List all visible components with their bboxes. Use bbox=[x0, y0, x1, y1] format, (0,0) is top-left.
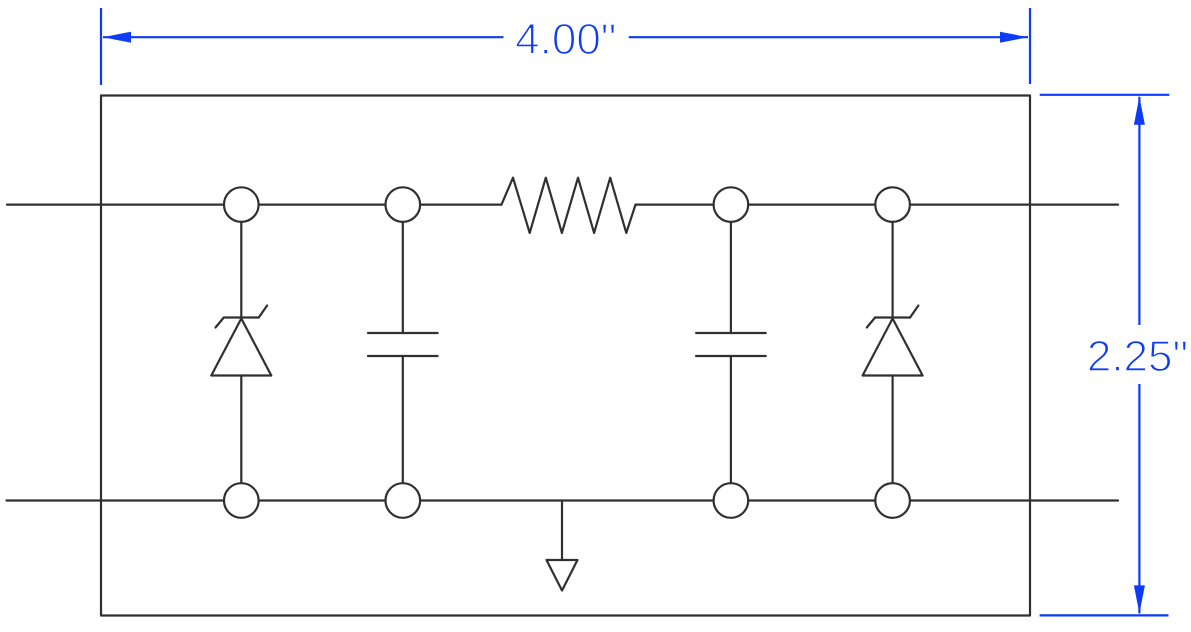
dimension line width left part with arrow bbox=[103, 32, 504, 43]
dimension text 4.00" bbox=[515, 15, 616, 64]
dimension extension line top (height) bbox=[1040, 94, 1170, 96]
node B (top rail, branch C1) bbox=[386, 187, 421, 222]
dimension extension line right (width) bbox=[1029, 8, 1031, 84]
wire branch C1 upper bbox=[402, 205, 404, 333]
ground bbox=[547, 501, 578, 591]
wire branch C2 lower bbox=[730, 356, 732, 501]
svg-text:2.25": 2.25" bbox=[1087, 332, 1188, 381]
resistor R1 bbox=[502, 178, 636, 233]
node F (bottom rail, branch C1) bbox=[386, 483, 421, 518]
wire top rail left segment bbox=[7, 204, 502, 206]
capacitor C1 bbox=[368, 333, 438, 356]
node D (top rail, branch D2) bbox=[875, 187, 910, 222]
wire bottom rail bbox=[7, 499, 1119, 501]
wire branch D2 lower bbox=[891, 376, 893, 501]
wire branch C2 upper bbox=[730, 205, 732, 333]
wire top rail right segment bbox=[636, 204, 1119, 206]
dimension extension line left (width) bbox=[100, 8, 102, 85]
wire branch D1 upper bbox=[240, 205, 242, 318]
capacitor C2 bbox=[696, 333, 766, 356]
svg-text:4.00": 4.00" bbox=[515, 15, 616, 64]
dimension line width right part with arrow bbox=[629, 32, 1028, 43]
zener diode D2 bbox=[863, 306, 923, 376]
wire branch D2 upper bbox=[891, 205, 893, 318]
enclosure outline (4.00 x 2.25 in box) bbox=[101, 96, 1030, 616]
node A (top rail, branch D1) bbox=[224, 187, 259, 222]
node H (bottom rail, branch D2) bbox=[875, 483, 910, 518]
wire branch D1 lower bbox=[240, 376, 242, 501]
node G (bottom rail, branch C2) bbox=[714, 483, 749, 518]
dimension extension line bottom (height) bbox=[1040, 614, 1169, 616]
dimension text 2.25" bbox=[1087, 332, 1188, 381]
zener diode D1 bbox=[211, 306, 271, 376]
node C (top rail, branch C2) bbox=[714, 187, 749, 222]
wire branch C1 lower bbox=[402, 356, 404, 501]
node E (bottom rail, branch D1) bbox=[224, 483, 259, 518]
dimension line height upper part with arrow bbox=[1134, 97, 1145, 325]
dimension line height lower part with arrow bbox=[1134, 384, 1145, 613]
